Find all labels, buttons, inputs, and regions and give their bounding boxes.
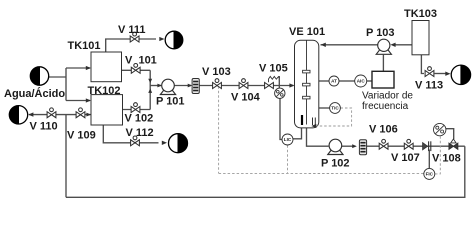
instrument AT <box>329 76 339 86</box>
vessel VE101 <box>295 40 319 128</box>
svg-text:Agua/Ácido: Agua/Ácido <box>4 87 65 100</box>
wire V113 to drain <box>435 73 447 75</box>
wire recycle riser <box>65 115 67 198</box>
valve V103 <box>213 79 222 89</box>
wire junction vertical to pump suction <box>149 70 151 109</box>
wire AT to AIC <box>339 80 355 82</box>
valve V113 <box>425 67 434 77</box>
tank TK101 <box>91 52 122 82</box>
valve V101 <box>131 64 140 74</box>
wire TK103 to P103 suction <box>395 44 412 46</box>
arrow into vessel VE101 feed <box>289 83 294 87</box>
valve V109 <box>76 108 85 118</box>
vessel paddle 1 <box>303 70 310 73</box>
arrow into P103 <box>390 43 395 47</box>
wire TK103 bottom to V113 <box>421 55 424 74</box>
svg-text:P 102: P 102 <box>321 158 350 170</box>
vessel paddle 2 <box>303 83 310 86</box>
arrow into TK102 lower <box>86 113 91 117</box>
arrow into V112 drain circle <box>162 141 167 145</box>
svg-text:P 101: P 101 <box>156 96 185 108</box>
svg-text:V 110: V 110 <box>30 121 58 133</box>
valve V106 <box>379 139 388 149</box>
filter F2 <box>359 140 366 155</box>
wire P101 discharge to filter <box>175 85 192 87</box>
vessel paddle 3 <box>303 96 310 99</box>
wire vessel level tap to LIC <box>293 125 302 139</box>
flow element FE (check/orifice) <box>423 141 431 151</box>
svg-text:V 102: V 102 <box>125 113 154 125</box>
wire AIC to VFD box <box>367 80 372 82</box>
vessel agitator shaft <box>306 41 308 125</box>
svg-text:AIC: AIC <box>357 79 366 84</box>
wire positioner to LIC <box>280 98 282 139</box>
relay FY (circle with slash) <box>434 123 446 135</box>
wire FY to V108 actuator <box>446 129 454 140</box>
pump P103 <box>376 39 391 54</box>
instrument LIC <box>282 134 293 145</box>
svg-text:V 111: V 111 <box>118 24 146 36</box>
svg-text:AT: AT <box>331 79 337 84</box>
arrow into TK101 <box>86 66 91 70</box>
wire feed branch vertical <box>65 68 67 101</box>
svg-text:V 108: V 108 <box>432 153 461 165</box>
svg-text:V 105: V 105 <box>259 63 288 75</box>
svg-text:LIC: LIC <box>284 137 292 142</box>
arrow into V113 drain circle <box>445 72 450 76</box>
wire pump P101 suction <box>150 85 161 87</box>
tank TK103 <box>412 21 429 55</box>
wire feed to TK102 <box>66 100 90 102</box>
wire TK102 outlet through V102 <box>123 109 151 111</box>
instrument AIC <box>355 75 367 87</box>
wire recirc line F2 to V108 <box>367 145 465 147</box>
wire feed from Agua/Acido circle to branch <box>49 76 67 78</box>
sink at V112 <box>169 134 188 153</box>
wire V105 actuator drop to positioner <box>278 76 280 88</box>
valve V112 <box>131 136 140 146</box>
wire signal drop at V103 <box>218 86 220 173</box>
wire TIC signal loop to heater <box>316 108 352 126</box>
sink at V111 <box>165 31 183 49</box>
svg-text:TK102: TK102 <box>88 85 121 97</box>
pump P102 <box>328 139 343 154</box>
wire recycle bottom run <box>66 146 465 197</box>
svg-text:TK103: TK103 <box>404 8 437 20</box>
wire flow element to FIC <box>428 150 430 169</box>
svg-text:TIC: TIC <box>331 106 339 111</box>
variable frequency drive box <box>372 71 394 88</box>
wire P103 discharge to vessel <box>321 44 378 46</box>
svg-text:V 103: V 103 <box>202 66 231 78</box>
tank TK102 <box>91 95 123 125</box>
svg-text:V 112: V 112 <box>126 127 154 139</box>
valve V110 <box>47 108 56 118</box>
svg-text:V 107: V 107 <box>391 152 420 164</box>
wire FIC to FY signal <box>435 136 440 174</box>
wire LIC signal drop <box>287 145 289 173</box>
svg-text:VE 101: VE 101 <box>289 26 325 38</box>
wire TK102 drain to V110 sink <box>29 114 91 116</box>
valve V102 <box>131 103 140 113</box>
svg-text:V 113: V 113 <box>415 80 443 92</box>
svg-text:frecuencia: frecuencia <box>362 101 409 112</box>
wire P102 discharge to filter F2 <box>342 145 356 147</box>
valve V107 <box>404 139 413 149</box>
wire vessel to AT <box>319 80 329 82</box>
svg-text:V 106: V 106 <box>369 124 398 136</box>
arrow up on junction vertical <box>148 88 152 93</box>
wire vessel to TIC <box>319 107 330 109</box>
arrow into filter F2 <box>352 144 357 148</box>
svg-text:TK101: TK101 <box>68 40 101 52</box>
positioner on V105 (circle with slash) <box>275 88 285 98</box>
pump P101 <box>160 79 175 94</box>
source Agua/Acido <box>30 67 48 85</box>
wire TK102 bottom drain through V112 <box>103 125 158 143</box>
arrow into V110 drain circle <box>28 112 33 116</box>
valve V105 <box>265 83 274 89</box>
sink at V110 <box>9 106 27 124</box>
valve V105 actuator spring <box>269 76 280 82</box>
wire VFD to pump P103 <box>382 55 384 72</box>
svg-text:FIC: FIC <box>426 171 434 176</box>
valve V108 <box>449 143 458 149</box>
wire vessel dip tube / outlet to P102 <box>307 41 329 147</box>
svg-text:V 101: V 101 <box>125 55 157 67</box>
valve V108 actuator <box>451 139 456 143</box>
filter F1 <box>192 79 199 94</box>
svg-text:V 104: V 104 <box>231 92 261 104</box>
arrow into filter F1 <box>188 84 193 88</box>
valve V104 <box>239 79 248 89</box>
instrument TIC <box>330 103 341 114</box>
arrow into TK102 upper <box>86 98 91 102</box>
sink at V113 <box>451 65 470 84</box>
wire main line filter to vessel VE101 <box>199 85 293 87</box>
svg-text:V 109: V 109 <box>67 130 96 142</box>
wire feed to TK101 <box>66 67 90 69</box>
instrument FIC <box>424 168 435 179</box>
svg-text:P 103: P 103 <box>366 27 395 39</box>
arrow into P101 <box>157 84 162 88</box>
wire TK101 top vent to V111 line <box>106 39 156 52</box>
arrow down on junction vertical <box>148 79 152 84</box>
wire TK101 outlet through V101 <box>122 69 151 71</box>
arrow TIC signal into heater <box>311 124 316 128</box>
vessel level probe <box>301 115 303 125</box>
valve V111 <box>130 32 139 42</box>
arrow into vessel from P103 <box>321 43 326 47</box>
wire signal bottom run to FIC <box>219 172 424 174</box>
svg-text:Variador de: Variador de <box>362 90 413 101</box>
arrow into V111 drain circle <box>159 37 164 41</box>
vessel heater element <box>313 118 316 126</box>
